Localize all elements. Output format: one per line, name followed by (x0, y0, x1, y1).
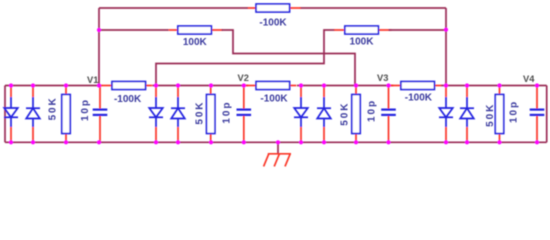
junction dot bottom bus x=99 (97, 140, 101, 144)
junction dot bottom bus x=356 (354, 140, 358, 144)
diode group2 left (cathode down) (149, 86, 163, 143)
svg-text:-100K: -100K (260, 94, 288, 105)
diode group2 right (cathode up) (171, 86, 185, 143)
svg-text:-100K: -100K (259, 18, 287, 29)
junction dot bottom bus x=278 (276, 140, 280, 144)
junction dot top bus x=499.5 (497, 83, 501, 87)
junction dot bottom bus x=537 (535, 140, 539, 144)
junction dot top bus x=324 (322, 83, 326, 87)
svg-text:-100K: -100K (405, 92, 433, 103)
svg-text:V3: V3 (377, 73, 388, 83)
resistor -100K (top feedback V1-V4) (248, 4, 301, 29)
capacitor 10p (group1 shunt) (80, 86, 107, 143)
junction dot top bus x=301 (299, 83, 303, 87)
svg-text:10p: 10p (367, 99, 378, 122)
svg-text:100K: 100K (183, 37, 208, 48)
resistor 100K (feedback V1-V3) (169, 26, 223, 48)
svg-text:100K: 100K (350, 37, 375, 48)
junction dot top bus x=211 (209, 83, 213, 87)
junction dot top bus x=243.8 (242, 83, 246, 87)
resistor 100K (feedback V2-V4) (334, 26, 392, 48)
junction dot bottom bus x=499.5 (497, 140, 501, 144)
wire 100K-right to V4 riser (389, 29, 447, 31)
junction dot bottom bus x=301 (299, 140, 303, 144)
svg-text:50K: 50K (195, 101, 206, 125)
wire 100K-left row from V1 riser to resistor (99, 29, 169, 31)
junction dot top bus x=446 (444, 83, 448, 87)
junction dot bottom bus x=11 (9, 140, 13, 144)
wire top feedback horizontal y=8 right segment (300, 7, 446, 9)
wire top feedback horizontal y=8 left segment (99, 7, 248, 9)
junction dot bottom bus x=446 (444, 140, 448, 144)
wire bottom bus y=142.3 full width (5, 141, 547, 143)
resistor -100K (series V1-V2) (101, 82, 153, 105)
capacitor 10p (group4 shunt) (509, 86, 545, 143)
junction dot bottom bus x=211 (209, 140, 213, 144)
wire V2 to 100K-right: up from bus, across y=63.5, up to resistor (156, 30, 335, 86)
capacitor 10p (group2 shunt) (222, 86, 252, 143)
diode group3 left (cathode down) (294, 86, 308, 143)
wire top bus segment 2 (R1 to R2) (153, 85, 249, 87)
diode group3 right (cathode up) (317, 86, 331, 143)
junction dot top bus x=467 (465, 83, 469, 87)
junction dot bottom bus x=324 (322, 140, 326, 144)
junction dot bottom bus x=388.5 (386, 140, 390, 144)
junction dot top bus x=99 (97, 83, 101, 87)
svg-text:-100K: -100K (114, 94, 142, 105)
junction dot top bus x=388.5 (386, 83, 390, 87)
diode group4 right (cathode up) (460, 86, 474, 143)
junction dot top bus x=33 (31, 83, 35, 87)
diode group1 right (cathode up) (26, 86, 40, 143)
junction dot bottom bus x=243.8 (242, 140, 246, 144)
junction dot bottom bus x=33 (31, 140, 35, 144)
junction dot top bus x=356 (354, 83, 358, 87)
junction dot bottom bus x=156 (154, 140, 158, 144)
resistor 50K (group2 shunt) (195, 86, 215, 143)
wire top bus segment 3 (R2 to R3) (297, 85, 394, 87)
junction dot top bus x=11 (9, 83, 13, 87)
svg-text:50K: 50K (47, 96, 58, 120)
junction dot top bus x=537 (535, 83, 539, 87)
junction dot bottom bus x=467 (465, 140, 469, 144)
diode group1 left (cathode down) (4, 86, 18, 143)
svg-text:V2: V2 (238, 73, 249, 83)
svg-text:50K: 50K (485, 103, 496, 127)
junction dot top bus x=178 (176, 83, 180, 87)
diode group4 left (cathode down) (439, 86, 453, 143)
wire ground stem from bottom bus (277, 142, 279, 154)
wire top bus y=85.5 segment 1 (left end to R1) (5, 85, 102, 87)
junction dot bottom bus x=178 (176, 140, 180, 144)
wire left end vertical joining buses (4, 86, 6, 143)
wire right end vertical joining buses (546, 86, 548, 143)
resistor 50K (group4 shunt) (485, 86, 504, 143)
junction dot on V4 riser at 100K-right tap (444, 28, 448, 32)
junction dot top bus x=156 (154, 83, 158, 87)
resistor 50K (group1 shunt) (47, 86, 70, 143)
resistor -100K (series V3-V4) (390, 82, 442, 104)
svg-text:10p: 10p (509, 100, 520, 123)
ground symbol (264, 154, 291, 167)
svg-text:50K: 50K (340, 102, 351, 126)
svg-text:10p: 10p (222, 101, 233, 124)
capacitor 10p (group3 shunt) (367, 86, 396, 143)
resistor -100K (series V2-V3) (245, 82, 297, 105)
wire 100K-left to V3: right, down, across y=53.5, down to bus (222, 30, 356, 86)
svg-text:V1: V1 (87, 75, 98, 85)
resistor 50K (group3 shunt) (340, 86, 361, 143)
wire V1 vertical riser x=99 (top bus to top feedback) (98, 8, 100, 86)
junction dot bottom bus x=66 (64, 140, 68, 144)
svg-text:10p: 10p (80, 98, 91, 121)
svg-text:V4: V4 (523, 74, 535, 84)
wire top bus segment 4 (R3 to right end) (441, 85, 547, 87)
junction dot on V1 riser at 100K-left tap (97, 28, 101, 32)
junction dot top bus x=66 (64, 83, 68, 87)
wire V4 vertical riser x=446 (top feedback to top bus) (445, 8, 447, 86)
